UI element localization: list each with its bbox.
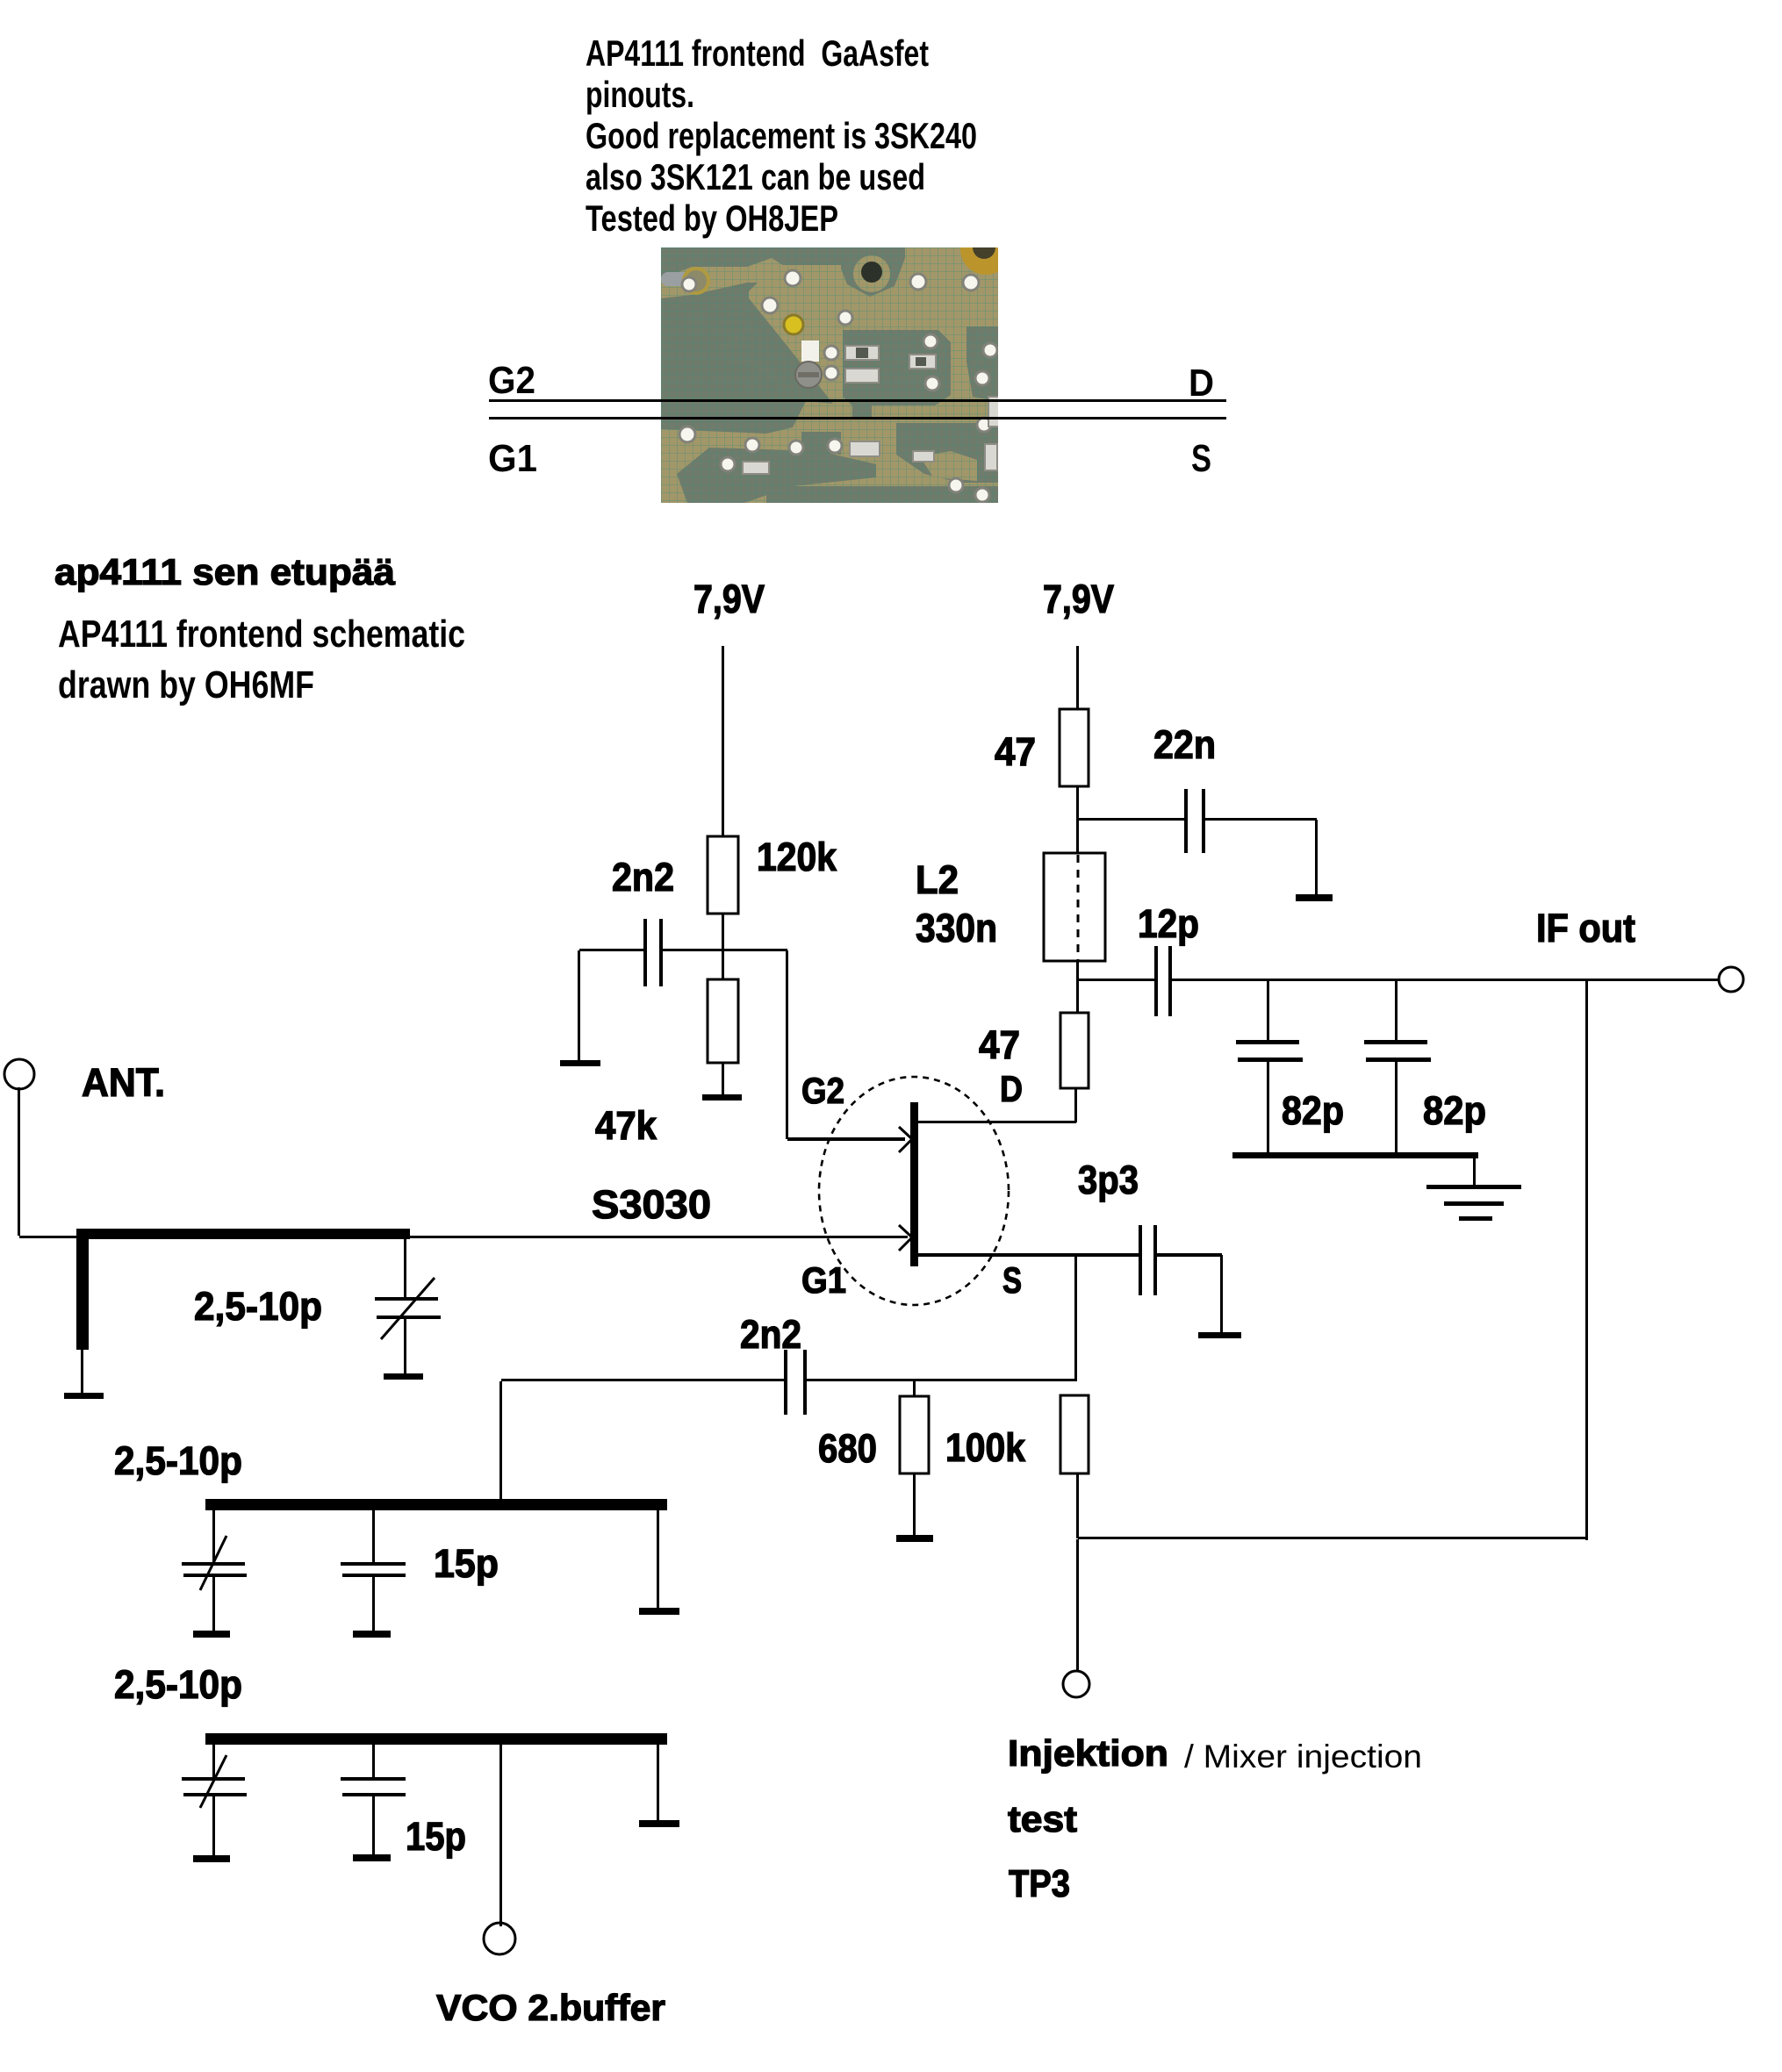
wire 3p3 drop [1220,1255,1223,1332]
stripline left leg [76,1229,89,1350]
capacitor 15p (2) [341,1777,406,1796]
ground bus bar (82p) [1232,1152,1478,1158]
wire resonator3 right leg [657,1745,659,1820]
terminal IF out [1719,967,1743,992]
svg-text:VCO 2.buffer: VCO 2.buffer [436,1987,665,2028]
svg-text:7,9V: 7,9V [693,577,765,621]
inductor L2 330n [1044,853,1105,961]
wire 680 to ground [913,1473,916,1535]
svg-text:AP4111 frontend GaAsfet: AP4111 frontend GaAsfet [586,32,929,74]
svg-text:15p: 15p [406,1814,466,1859]
ground (trimmer 2) [193,1631,230,1638]
capacitor 82p (first) [1236,981,1303,1153]
wire junction to feedback [1078,1537,1587,1539]
svg-text:G1: G1 [488,437,537,480]
svg-text:120k: 120k [757,835,837,879]
wire trimmer2 stem [212,1510,215,1562]
capacitor 82p (second) [1364,981,1431,1153]
wire trimmer3 to ground [212,1796,215,1855]
ground (22n) [1296,894,1333,901]
svg-text:/ Mixer injection: / Mixer injection [1184,1739,1422,1774]
svg-text:2,5-10p: 2,5-10p [114,1438,242,1483]
photo: PCB frontend photograph [661,224,1011,503]
svg-text:L2: L2 [916,857,959,902]
wire VCO riser [499,1745,502,1926]
wire 15p(2) stem [372,1745,375,1777]
svg-text:680: 680 [818,1426,877,1471]
svg-text:S: S [1002,1259,1022,1301]
ground (trimmer 1) [384,1373,423,1380]
svg-text:also 3SK121 can be used: also 3SK121 can be used [586,156,925,197]
svg-text:D: D [1000,1068,1023,1109]
ground (3p3) [1198,1332,1241,1338]
svg-text:47k: 47k [595,1103,657,1148]
wire pinout G2-D [489,399,1226,402]
wire G1 from input line [407,1236,908,1238]
wire 47k to ground [722,1063,724,1094]
trimmer capacitor 2,5-10p (2) [182,1536,247,1590]
wire line2 left segment [501,1379,786,1381]
wire 47 to node [1076,786,1079,820]
capacitor 2n2 (source coupling) [784,1350,807,1415]
wire trimmer3 stem [212,1745,215,1777]
wire node to 22n [1078,818,1185,821]
earth ground symbol [1426,1185,1521,1221]
wire IF feedback down [1585,981,1588,1540]
svg-text:2n2: 2n2 [740,1312,801,1357]
svg-text:Good replacement is 3SK240: Good replacement is 3SK240 [586,115,977,156]
wire IF node down [1076,981,1079,1013]
ground (15p 1) [353,1631,391,1638]
wire 100k down [1076,1473,1079,1538]
svg-text:2n2: 2n2 [612,855,674,900]
wire to injection terminal [1076,1539,1079,1670]
wire G2 drop [786,950,788,1139]
svg-text:100k: 100k [945,1425,1026,1470]
svg-text:12p: 12p [1138,901,1199,946]
wire 680 stem [913,1381,916,1396]
svg-text:330n: 330n [916,906,997,950]
G2 gate arrow [899,1127,911,1152]
stripline resonator 2 [205,1499,667,1510]
wire supply2 down [1076,646,1079,709]
ground (resonator 2) [639,1608,679,1615]
svg-text:IF out: IF out [1536,906,1635,950]
resistor 680 [900,1396,929,1473]
svg-text:S: S [1191,437,1211,480]
svg-text:Injektion: Injektion [1008,1732,1168,1774]
svg-text:15p: 15p [434,1541,499,1586]
trimmer capacitor 2,5-10p (3) [182,1755,247,1808]
svg-text:G2: G2 [801,1070,844,1111]
svg-text:3p3: 3p3 [1078,1158,1139,1202]
ground (resonator 3) [639,1820,679,1827]
wire IF node to 12p [1078,979,1156,981]
wire source horizontal [918,1253,1140,1257]
wire L2 to IF node [1076,961,1079,981]
wire 120k to node [722,914,724,979]
ground (15p 2) [353,1854,391,1861]
svg-text:TP3: TP3 [1009,1862,1070,1905]
svg-text:D: D [1189,362,1214,405]
wire riser to resonator 2 [499,1381,502,1499]
ground (trimmer 3) [193,1855,230,1862]
terminal ANT [4,1059,34,1089]
svg-text:G2: G2 [488,359,535,402]
svg-text:ANT.: ANT. [82,1060,165,1105]
svg-text:2,5-10p: 2,5-10p [114,1662,242,1707]
wire line2 right segment [807,1379,1077,1381]
wire IF line [1172,979,1719,981]
wire drain up to resistor [1074,1088,1077,1122]
wire 15p(1) to ground [372,1577,375,1631]
svg-text:test: test [1008,1798,1077,1839]
capacitor 12p [1154,946,1172,1016]
wire trimmer2 to ground [212,1577,215,1631]
wire 3p3 right [1157,1253,1222,1257]
svg-text:2,5-10p: 2,5-10p [194,1284,322,1329]
stripline L1 (resonator 1) [76,1229,410,1239]
wire 15p(1) stem [372,1510,375,1562]
wire node to L2 [1076,820,1079,853]
stripline resonator 3 [205,1733,667,1745]
ground (2n2 left) [560,1060,600,1066]
wire supply1 down [722,646,724,836]
wire ANT to stripline [19,1236,77,1238]
resistor 47 (drain) [1060,1013,1089,1088]
capacitor 2n2 (gate2 bypass) [643,919,663,986]
svg-text:47: 47 [979,1022,1020,1067]
svg-text:ap4111 sen etupää: ap4111 sen etupää [54,551,396,592]
svg-text:pinouts.: pinouts. [586,74,694,115]
resistor 120k [708,836,738,914]
wire resonator2 right leg [657,1510,659,1608]
svg-text:S3030: S3030 [592,1182,711,1227]
ground (47k) [702,1094,742,1101]
svg-text:drawn by OH6MF: drawn by OH6MF [58,663,314,706]
wire to trimmer 1 [404,1239,406,1299]
ground (680) [896,1535,933,1542]
resistor 100k [1060,1395,1089,1473]
capacitor 22n [1184,789,1205,853]
wire 22n drop [1315,820,1318,894]
terminal injection TP3 [1063,1671,1089,1697]
wire pinout G1-S [489,417,1226,419]
wire ANT down [18,1087,20,1236]
svg-text:AP4111 frontend schematic: AP4111 frontend schematic [58,613,465,656]
resistor 47k [708,979,738,1063]
wire 15p(2) to ground [372,1796,375,1854]
svg-text:82p: 82p [1423,1088,1486,1133]
wire G2 horizontal [787,1137,905,1141]
terminal VCO buffer [484,1923,515,1954]
svg-text:7,9V: 7,9V [1043,577,1114,621]
ground (resonator 1) [64,1393,104,1399]
trimmer capacitor 2,5-10p (1) [375,1278,441,1339]
capacitor 3p3 [1139,1225,1157,1295]
wire node left to cap 2n2 [579,949,644,951]
svg-text:47: 47 [995,729,1036,774]
svg-text:G1: G1 [801,1259,846,1301]
resistor 47 (top) [1060,709,1089,786]
svg-text:82p: 82p [1282,1088,1344,1133]
wire cap to node [663,949,787,951]
svg-text:22n: 22n [1153,722,1216,767]
svg-text:Tested by OH8JEP: Tested by OH8JEP [586,197,838,239]
wire 22n to drop [1205,818,1317,821]
wire trimmer1 to ground [404,1319,406,1373]
capacitor 15p (1) [341,1562,406,1577]
wire left drop to ground [578,950,580,1060]
wire left leg to ground [81,1350,83,1393]
note text: AP4111 pinout notes [586,32,977,239]
transistor S3030 (dual-gate GaAsFET) [819,1077,1009,1305]
wire bus to earth [1473,1158,1476,1185]
G1 gate arrow [899,1225,911,1251]
wire drain horizontal [918,1121,1076,1123]
wire source junction down [1074,1255,1077,1380]
